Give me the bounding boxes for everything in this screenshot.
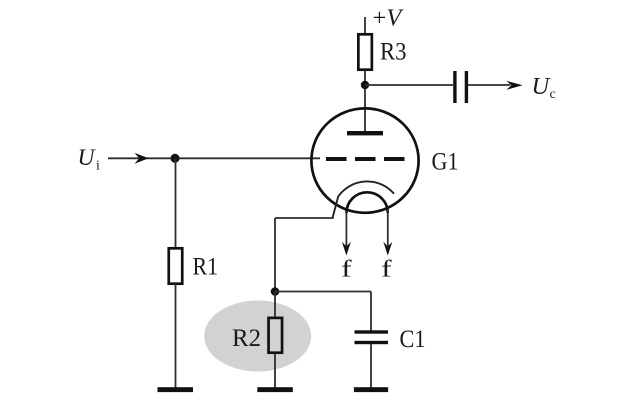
- svg-text:R2: R2: [232, 323, 261, 352]
- resistor R2: [269, 318, 283, 353]
- grid (dashed): [326, 157, 405, 161]
- wire: output to coupling capacitor: [365, 84, 453, 86]
- svg-text:f: f: [341, 256, 352, 282]
- node: anode/output junction: [361, 81, 369, 89]
- wire: +V supply lead: [364, 17, 366, 34]
- ground (R2): [257, 387, 293, 392]
- filament arrowhead right: [383, 242, 392, 256]
- svg-text:+V: +V: [373, 5, 405, 32]
- anode (plate) bar: [347, 131, 383, 135]
- svg-text:U: U: [78, 145, 97, 171]
- svg-text:R1: R1: [193, 252, 219, 281]
- capacitor C1: [355, 330, 389, 333]
- output arrowhead: [507, 81, 523, 90]
- ground (C1): [354, 387, 388, 392]
- cathode arc: [333, 181, 395, 218]
- wire: cathode drop to bias node: [274, 218, 276, 292]
- wire: node to R2: [274, 292, 276, 318]
- wire: C1 top lead: [370, 292, 372, 331]
- wire: node to R1: [175, 158, 177, 248]
- resistor R1: [169, 248, 183, 283]
- filament lead left: [345, 211, 347, 248]
- svg-text:c: c: [550, 87, 556, 102]
- wire: cathode lead horizontal: [275, 217, 334, 219]
- resistor R3: [358, 34, 372, 69]
- svg-text:C1: C1: [400, 324, 426, 353]
- ground (R1): [158, 387, 194, 392]
- svg-text:U: U: [532, 73, 552, 100]
- filament arrowhead left: [342, 242, 351, 256]
- highlight ellipse around R2: [204, 301, 311, 372]
- coupling capacitor: [453, 71, 456, 103]
- filament arch: [346, 192, 387, 213]
- wire: R2 to ground: [274, 354, 276, 388]
- node: input/R1 junction: [171, 154, 180, 163]
- tube G1 envelope: [311, 108, 418, 212]
- node: cathode bias junction: [271, 287, 280, 296]
- wire: coupling capacitor to output arrow: [468, 84, 510, 86]
- svg-text:i: i: [96, 159, 100, 174]
- wire: C1 to ground: [370, 344, 372, 388]
- filament lead right: [387, 210, 389, 248]
- input arrowhead: [135, 153, 149, 164]
- svg-text:G1: G1: [432, 146, 459, 175]
- wire: R3 to anode: [364, 71, 366, 132]
- svg-text:f: f: [381, 256, 392, 282]
- wire: bias node to C1: [275, 291, 371, 293]
- wire: input to grid: [108, 157, 320, 159]
- svg-text:R3: R3: [380, 36, 407, 65]
- wire: R1 to ground: [175, 284, 177, 388]
